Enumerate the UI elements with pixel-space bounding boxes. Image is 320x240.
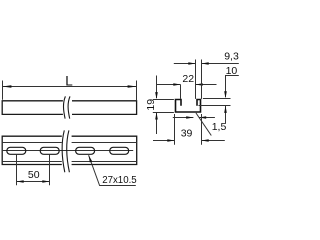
break line left (side view) bbox=[63, 96, 65, 118]
dimension L line bbox=[3, 86, 137, 88]
dimension 10 down arrow bbox=[224, 91, 227, 98]
svg-text:50: 50 bbox=[28, 169, 40, 181]
thickness 1,5 arrow left bbox=[173, 117, 194, 119]
rail side view left segment bbox=[2, 101, 63, 115]
dimension 9.3 line left part with arrow bbox=[174, 63, 196, 65]
svg-text:39: 39 bbox=[181, 128, 193, 140]
dimension 9.3 line right part with arrow bbox=[202, 63, 239, 65]
dimension 39 extension line left bbox=[174, 114, 176, 145]
shared extension line (22 right / 9.3 left) bbox=[195, 60, 197, 99]
dimension L extension line left bbox=[2, 81, 4, 100]
break line right (plan view) bbox=[67, 130, 70, 172]
dimension 10 leader under label bbox=[226, 76, 239, 98]
plan view outline right segment bbox=[72, 136, 137, 164]
leader arrow at slot 3 bbox=[89, 155, 93, 162]
leader line for slot size bbox=[89, 155, 136, 185]
dimension 50 arrow left bbox=[17, 180, 24, 183]
slot 3 bbox=[76, 147, 95, 154]
slot 4 bbox=[110, 147, 129, 154]
svg-text:9,3: 9,3 bbox=[224, 50, 239, 62]
dimension 19 upper shaft with down arrow bbox=[156, 76, 158, 99]
dimension 19 extension line top bbox=[153, 99, 174, 101]
thickness 1,5 arrow right bbox=[199, 117, 215, 119]
thickness 1,5 leader diagonal bbox=[196, 113, 211, 136]
dimension 50 extension line right bbox=[49, 155, 51, 186]
plan inner fold line top bbox=[2, 142, 137, 144]
C-profile outline bbox=[176, 100, 201, 113]
svg-text:27x10.5: 27x10.5 bbox=[102, 175, 136, 186]
dimension 22 line left part with arrow bbox=[157, 84, 181, 86]
dimension 50 extension line left bbox=[16, 155, 18, 186]
rail centre line bbox=[3, 150, 133, 152]
dimension 39 line right part with arrow bbox=[202, 140, 225, 142]
svg-text:1,5: 1,5 bbox=[212, 121, 227, 133]
svg-text:L: L bbox=[65, 73, 73, 88]
dimension 9.3 extension line right bbox=[201, 60, 203, 99]
dimension L extension line right bbox=[136, 81, 138, 101]
dimension 50 arrow right bbox=[42, 180, 49, 183]
dimension 19 extension line bottom bbox=[153, 112, 174, 114]
plan view outline left segment bbox=[2, 136, 62, 164]
dimension 39 line left part with arrow bbox=[153, 140, 175, 142]
break line left (plan view) bbox=[62, 130, 65, 172]
dimension 19 lower shaft with up arrow bbox=[156, 113, 158, 134]
dimension L arrow left bbox=[2, 85, 11, 88]
rail side view right segment bbox=[72, 101, 137, 115]
svg-text:19: 19 bbox=[145, 99, 157, 111]
dimension 10 up arrow with shaft bbox=[225, 106, 227, 124]
technical drawing: slotted C-profile mounting rail, three views bbox=[0, 0, 239, 239]
slot 1 bbox=[7, 147, 26, 154]
dimension 22 line right part with arrow bbox=[196, 84, 217, 86]
svg-text:10: 10 bbox=[226, 65, 238, 77]
dimension L arrow right bbox=[128, 85, 137, 88]
dimension 10 extension line bottom bbox=[199, 105, 231, 107]
plan inner fold line bottom bbox=[2, 161, 137, 163]
dimension 10 extension line top bbox=[203, 98, 231, 100]
break line right (side view) bbox=[68, 96, 70, 118]
svg-text:22: 22 bbox=[182, 73, 194, 85]
dimension 50 line bbox=[17, 181, 50, 183]
dimension 39 extension line right bbox=[201, 114, 203, 145]
slot 2 bbox=[40, 147, 59, 154]
dimension 22 extension line left bbox=[180, 85, 182, 99]
